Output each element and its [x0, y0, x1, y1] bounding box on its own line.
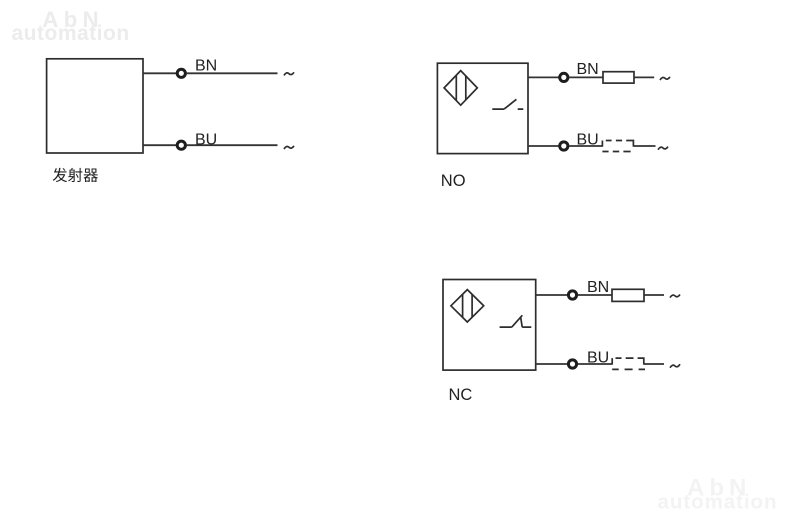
terminal BN (NC): [568, 291, 576, 299]
label BU (NO): [577, 132, 599, 149]
svg-text:BN: BN: [195, 58, 217, 75]
wire BU (transmitter, box to terminal): [143, 144, 176, 146]
label NC: [449, 386, 473, 404]
svg-text:NO: NO: [441, 172, 466, 190]
AC source tilde (NO BU): [658, 147, 668, 150]
watermark bottom-right "AbN automation": [658, 474, 778, 513]
AC source tilde (NC BU): [670, 364, 680, 368]
wire BN (NC, box to terminal): [536, 294, 568, 296]
wire BU (NO, load to source): [634, 145, 656, 147]
wire BU (NO, box to terminal): [528, 145, 559, 147]
label BN (NO): [577, 61, 599, 78]
terminal BU (transmitter): [177, 141, 185, 149]
label BN (transmitter): [195, 58, 217, 75]
optional load, dashed (NC BU): [612, 358, 645, 369]
wire BN (NO, load to source): [634, 76, 654, 78]
wire BU (NO, terminal to load): [569, 145, 602, 147]
transmitter box 发射器: [47, 59, 143, 153]
NO contact symbol: [492, 99, 523, 109]
wire BU (NC, box to terminal): [536, 363, 568, 365]
wire BN (NO, terminal to load): [569, 76, 603, 78]
svg-text:BN: BN: [587, 279, 609, 296]
sensor box NO: [437, 63, 528, 153]
svg-text:BU: BU: [577, 132, 599, 149]
AC source tilde (transmitter BU): [284, 146, 294, 149]
terminal BN (transmitter): [177, 69, 185, 77]
wire BN (transmitter, box to terminal): [143, 72, 176, 74]
AC source tilde (NO BN): [660, 77, 670, 80]
AC source tilde (NC BN): [670, 295, 680, 298]
optional load, dashed (NO BU): [602, 141, 633, 152]
label NO: [441, 172, 466, 190]
load resistor (NC BN): [612, 289, 644, 301]
label BU (NC): [587, 349, 609, 366]
watermark top-left "AbN automation": [12, 7, 130, 45]
wire BN (NC, load to source): [644, 294, 664, 296]
wire BN (transmitter, terminal to source): [187, 72, 278, 74]
svg-text:BN: BN: [577, 61, 599, 78]
load resistor (NO BN): [603, 72, 634, 83]
wire BU (NC, load to source): [644, 363, 664, 365]
svg-text:BU: BU: [195, 132, 217, 149]
proximity sensor symbol (diamond, NC box): [451, 290, 484, 322]
wire BU (transmitter, terminal to source): [187, 144, 278, 146]
terminal BN (NO): [560, 73, 568, 81]
svg-text:BU: BU: [587, 349, 609, 366]
wire BN (NC, terminal to load): [578, 294, 612, 296]
svg-text:automation: automation: [12, 22, 130, 45]
NC contact symbol: [500, 315, 532, 327]
label 发射器 (transmitter): [53, 168, 98, 182]
sensor box NC: [443, 280, 536, 371]
wire BN (NO, box to terminal): [528, 76, 559, 78]
label BN (NC): [587, 279, 609, 296]
AC source tilde (transmitter BN): [284, 72, 294, 75]
terminal BU (NO): [560, 142, 568, 150]
wire BU (NC, terminal to load): [578, 363, 612, 365]
label BU (transmitter): [195, 132, 217, 149]
terminal BU (NC): [568, 360, 576, 368]
svg-text:NC: NC: [449, 386, 473, 404]
svg-text:automation: automation: [658, 490, 778, 513]
proximity sensor symbol (diamond, NO box): [444, 71, 477, 106]
